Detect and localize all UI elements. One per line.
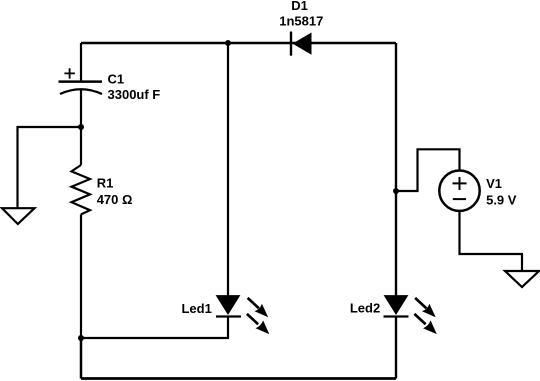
Led2 emission arrow 1: [415, 298, 436, 317]
ground right: [505, 271, 539, 287]
wire node A to left ground: [18, 127, 82, 208]
wire Led2 bottom to bottom rail: [395, 317, 397, 379]
wire top rail: [81, 42, 396, 45]
node A junction dot: [78, 124, 84, 130]
svg-text:D1: D1: [291, 0, 308, 13]
capacitor C1: [59, 68, 103, 94]
Led2 emission arrow 2: [414, 314, 436, 334]
wire node B to bottom rail: [80, 338, 83, 379]
svg-text:1n5817: 1n5817: [279, 14, 323, 29]
ground left: [2, 208, 35, 224]
Led1 emission arrow 2: [247, 314, 269, 334]
label D1 value: [279, 0, 323, 29]
svg-text:3300uf F: 3300uf F: [108, 87, 161, 102]
wire R1 bottom to node B: [80, 214, 82, 338]
wire node B to Led1 bottom: [81, 317, 228, 339]
node top junction dot: [225, 40, 231, 46]
wire C1 bottom to node A: [80, 90, 82, 127]
wire node C to V1 top: [396, 149, 460, 191]
svg-text:5.9 V: 5.9 V: [486, 192, 517, 207]
svg-text:R1: R1: [97, 176, 114, 191]
Led1 emission arrow 1: [248, 298, 269, 317]
resistor R1: [72, 165, 91, 214]
wire Led1 top to top rail: [227, 43, 229, 296]
label R1 value: [97, 176, 133, 208]
wire left vertical to C1 top: [80, 43, 82, 81]
svg-text:C1: C1: [108, 71, 125, 86]
wire bottom rail: [81, 377, 396, 380]
svg-text:Led2: Led2: [350, 301, 380, 316]
LED Led2: [384, 296, 409, 317]
LED Led1: [216, 296, 241, 317]
svg-text:V1: V1: [486, 176, 502, 191]
wire node A to R1: [80, 127, 82, 165]
wire V1 bottom to right ground: [460, 211, 523, 271]
label V1 value: [486, 176, 517, 208]
wire right vertical: [395, 43, 397, 296]
voltage source V1: [439, 171, 479, 211]
diode D1: [291, 32, 312, 56]
node B junction dot: [78, 335, 84, 341]
svg-text:Led1: Led1: [181, 301, 211, 316]
node C junction dot: [393, 188, 399, 194]
label C1 value: [108, 71, 161, 102]
svg-text:470 Ω: 470 Ω: [97, 192, 133, 207]
